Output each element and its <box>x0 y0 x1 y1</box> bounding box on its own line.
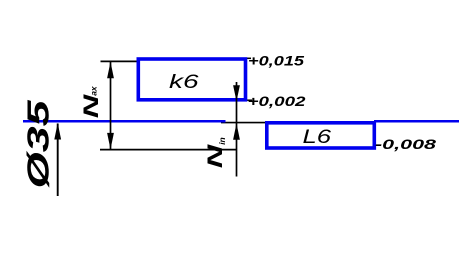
svg-text:ax: ax <box>89 85 99 96</box>
svg-text:+0,015: +0,015 <box>248 53 305 68</box>
svg-text:+0,002: +0,002 <box>248 94 307 109</box>
svg-text:Ø35: Ø35 <box>21 100 55 189</box>
svg-text:in: in <box>217 137 227 145</box>
svg-text:-0,008: -0,008 <box>375 137 437 152</box>
svg-text:N: N <box>80 94 103 119</box>
svg-text:L6: L6 <box>303 126 332 148</box>
svg-text:N: N <box>204 144 227 169</box>
svg-text:k6: k6 <box>169 71 199 93</box>
